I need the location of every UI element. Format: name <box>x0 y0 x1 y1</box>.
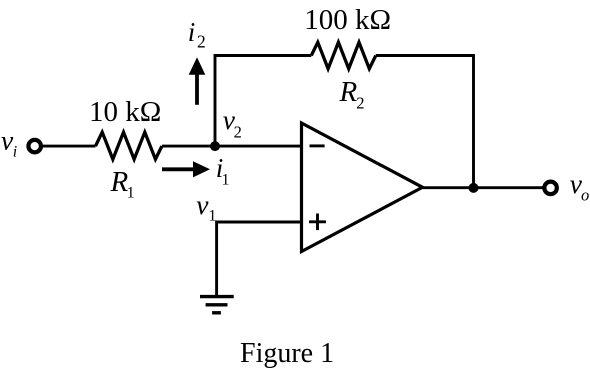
wire <box>217 222 302 296</box>
resistor R2 <box>311 42 376 68</box>
svg-text:i: i <box>13 144 17 161</box>
terminal vi <box>28 140 41 153</box>
ground <box>200 295 234 298</box>
resistor R1 <box>96 132 162 159</box>
svg-text:1: 1 <box>208 207 216 224</box>
svg-text:2: 2 <box>234 123 242 142</box>
wire <box>162 145 302 148</box>
svg-text:i: i <box>188 17 196 47</box>
svg-text:o: o <box>581 185 589 204</box>
wire <box>376 56 474 189</box>
svg-text:Figure 1: Figure 1 <box>240 338 334 369</box>
svg-text:1: 1 <box>127 185 135 202</box>
svg-text:2: 2 <box>356 93 364 112</box>
svg-text:1: 1 <box>222 172 230 189</box>
op-amp U1 <box>302 123 423 252</box>
wire <box>215 56 311 147</box>
wire <box>423 186 544 189</box>
node output <box>469 183 479 193</box>
wire <box>42 145 96 148</box>
terminal vo <box>544 182 557 195</box>
op-amp plus sign <box>309 220 326 223</box>
current arrow i2 <box>195 74 199 105</box>
svg-text:100 kΩ: 100 kΩ <box>304 4 391 36</box>
op-amp minus sign <box>310 144 325 147</box>
svg-text:10 kΩ: 10 kΩ <box>89 96 161 128</box>
svg-text:2: 2 <box>197 32 206 52</box>
svg-text:v: v <box>196 189 209 220</box>
node v2 <box>210 141 220 151</box>
current arrow i1 <box>162 167 195 171</box>
svg-text:R: R <box>339 76 358 108</box>
